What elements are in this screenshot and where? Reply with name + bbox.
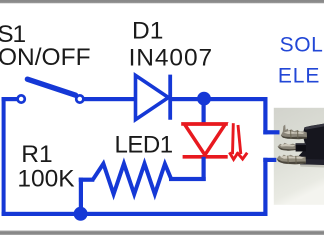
sensor pin 2 crimp [278, 143, 306, 152]
svg-text:ELE: ELE [278, 65, 320, 88]
diode D1 [136, 75, 171, 120]
wire: switch to diode [83, 97, 135, 101]
svg-text:R1: R1 [21, 141, 52, 168]
wire: diode to junction [171, 97, 204, 101]
LED1 top bar [181, 122, 228, 125]
resistor R1 [79, 164, 171, 195]
switch S1 lever [27, 79, 75, 95]
wire: resistor down to bottom rail [79, 178, 83, 214]
svg-text:D1: D1 [132, 18, 163, 45]
svg-text:IN4007: IN4007 [129, 44, 213, 71]
wire: top left to switch [2, 97, 18, 101]
resistor R1 left lead [79, 178, 95, 182]
sensor pin 3 [277, 155, 306, 165]
diode D1 cathode bar [168, 75, 172, 120]
svg-text:LED1: LED1 [115, 132, 173, 159]
svg-text:100K: 100K [17, 165, 75, 192]
svg-text:SOL: SOL [280, 34, 324, 57]
LED1 light arrow 2 [237, 125, 247, 159]
wire: LED to lower rail [202, 157, 206, 181]
photo of sensor component [274, 108, 324, 205]
wire: LED to resistor [169, 177, 206, 181]
wire: junction to right corner [204, 97, 267, 101]
junction node B [74, 207, 88, 221]
wire: stub to sensor bottom pin [263, 158, 276, 162]
bottom gray border [0, 230, 324, 235]
switch S1 left contact [18, 95, 25, 102]
top gray border [0, 0, 324, 4]
diode D1 triangle [136, 75, 169, 119]
wire: bottom horizontal [2, 212, 266, 216]
switch S1 right contact [76, 95, 83, 102]
junction node A [197, 92, 211, 106]
wire: left vertical [2, 97, 6, 216]
svg-text:ON/OFF: ON/OFF [0, 44, 91, 71]
wire: junction down to LED [202, 99, 206, 126]
switch S1 [18, 79, 84, 102]
wire: right vertical lower [263, 158, 267, 216]
LED1 light arrow 1 [229, 123, 238, 159]
wire: right vertical upper [263, 97, 267, 134]
sensor black body [299, 124, 324, 165]
sensor pin 1 [281, 125, 307, 140]
LED1 anode triangle [184, 124, 225, 155]
wire: stub to sensor top pin [263, 130, 279, 134]
LED1 symbol [181, 123, 247, 159]
LED1 cathode bar [183, 155, 228, 159]
resistor R1 zigzag [93, 164, 171, 195]
